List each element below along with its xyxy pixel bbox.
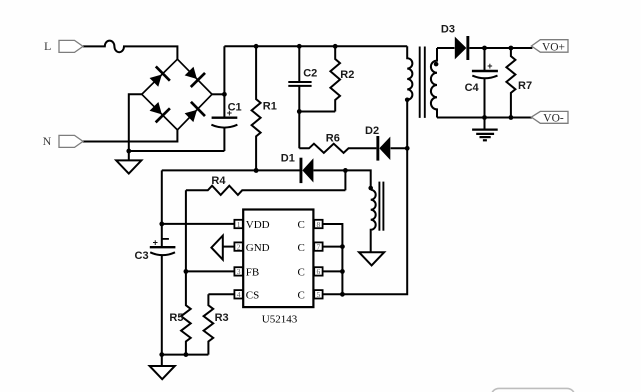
svg-text:R3: R3	[215, 312, 229, 324]
svg-text:8: 8	[317, 220, 321, 229]
svg-text:+: +	[487, 61, 492, 71]
svg-text:CS: CS	[246, 290, 259, 302]
svg-text:C3: C3	[135, 250, 149, 262]
svg-text:VO-: VO-	[543, 113, 564, 125]
svg-text:R4: R4	[211, 175, 226, 187]
svg-text:R6: R6	[326, 132, 340, 144]
svg-text:C4: C4	[465, 82, 480, 94]
svg-text:4: 4	[237, 290, 241, 299]
svg-text:+: +	[153, 238, 158, 248]
svg-text:5: 5	[317, 290, 321, 299]
svg-text:C: C	[297, 242, 304, 254]
svg-text:N: N	[43, 134, 52, 148]
svg-text:C: C	[297, 219, 304, 231]
svg-text:L: L	[44, 39, 51, 53]
svg-text:D2: D2	[365, 125, 379, 137]
svg-text:C2: C2	[303, 67, 317, 79]
svg-text:7: 7	[317, 242, 321, 251]
svg-text:C1: C1	[228, 102, 242, 114]
svg-text:C: C	[297, 267, 304, 279]
svg-text:2: 2	[237, 242, 241, 251]
svg-text:FB: FB	[246, 267, 259, 279]
svg-text:D3: D3	[441, 23, 455, 35]
svg-text:1: 1	[237, 220, 241, 229]
svg-text:R5: R5	[169, 312, 183, 324]
svg-text:C: C	[297, 290, 304, 302]
svg-text:D1: D1	[281, 153, 295, 165]
svg-text:R1: R1	[263, 100, 277, 112]
svg-text:VO+: VO+	[542, 42, 565, 54]
svg-text:U52143: U52143	[262, 314, 298, 326]
svg-text:R7: R7	[518, 80, 532, 92]
svg-text:R2: R2	[340, 69, 354, 81]
svg-text:VDD: VDD	[246, 219, 270, 231]
svg-text:6: 6	[317, 267, 321, 276]
svg-text:3: 3	[237, 267, 241, 276]
svg-text:GND: GND	[246, 242, 270, 254]
